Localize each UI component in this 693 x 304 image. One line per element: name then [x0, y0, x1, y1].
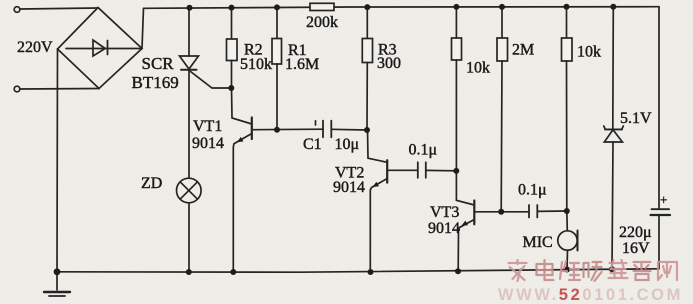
MIC flat electrode	[577, 231, 579, 251]
lamp ZD cross	[180, 182, 197, 199]
transistor VT2 emitter wire	[370, 179, 387, 273]
watermark chinese characters	[509, 260, 678, 281]
bridge diode cathode bar	[107, 41, 109, 55]
node dot MIC cap	[564, 208, 570, 214]
capacitor C1 left plate	[322, 121, 324, 138]
transistor VT3 base wire	[474, 211, 528, 213]
node dot top rail R3	[364, 4, 370, 10]
resistor 10k no1 top wire	[455, 7, 457, 38]
wire VT2 collector	[368, 130, 388, 162]
transistor VT2 base bar	[386, 160, 388, 182]
svg-text:5.1V: 5.1V	[620, 110, 652, 127]
transistor VT2 emitter arrow	[373, 182, 380, 187]
watermark char zi	[609, 260, 628, 278]
bridge diode bar line	[66, 48, 142, 50]
SCR gate wire	[191, 72, 232, 89]
wire cap2 to MIC node	[537, 210, 567, 212]
svg-text:+: +	[660, 192, 667, 207]
zener VD bar	[605, 128, 622, 130]
node dot top rail SCR	[187, 5, 193, 11]
resistor 10k no2 bottom wire	[566, 61, 568, 211]
transistor VT3 emitter arrow	[461, 221, 468, 226]
transistor VT1 base wire to C1	[252, 128, 323, 131]
svg-text:VT3: VT3	[430, 204, 459, 221]
node dot top rail 2M	[499, 4, 505, 10]
capacitor 0.1u no1 left plate	[417, 162, 419, 178]
svg-text:BT169: BT169	[132, 73, 179, 92]
MIC circle	[558, 231, 577, 250]
wire DC- drop from bridge left vertex	[56, 49, 59, 272]
svg-text:2M: 2M	[512, 42, 534, 59]
transistor VT1 emitter wire	[233, 134, 252, 273]
node dot top rail 10k1	[453, 4, 459, 10]
svg-text:10μ: 10μ	[335, 136, 360, 153]
svg-text:9014: 9014	[333, 179, 365, 196]
resistor 10k no2 top wire	[566, 7, 568, 38]
capacitor 0.1u no1 right plate	[425, 162, 427, 178]
resistor R1 bottom wire	[276, 64, 278, 130]
resistor 10k no1 box	[452, 38, 462, 60]
node dot bottom rail ground	[54, 268, 61, 275]
svg-text:510k: 510k	[240, 56, 272, 73]
capacitor 220u top plate	[652, 208, 670, 210]
node dot top rail R2	[229, 5, 235, 11]
node dot VT2 base cap	[453, 168, 459, 174]
resistor R2 bottom wire	[231, 61, 233, 89]
wire C1 to VT2 collector node	[331, 128, 367, 131]
svg-text:0.1μ: 0.1μ	[409, 142, 438, 159]
resistor R3 bottom wire	[366, 63, 368, 131]
resistor R1 top wire	[276, 7, 278, 38]
terminal bottom-left	[14, 86, 20, 92]
transistor VT2 base wire	[387, 169, 417, 171]
svg-text:1.6M: 1.6M	[285, 56, 319, 73]
svg-text:C1: C1	[303, 136, 322, 153]
resistor R3 box	[362, 39, 372, 63]
node dot bottom rail VT3e	[455, 268, 461, 274]
bridge rectifier diamond	[58, 8, 143, 89]
svg-text:WWW.520101.COM: WWW.520101.COM	[498, 286, 683, 304]
capacitor 220u bottom plate	[651, 214, 671, 216]
node dot bottom rail MIC	[564, 267, 570, 273]
ground	[56, 272, 58, 290]
resistor R2 box	[227, 39, 238, 61]
wire R2-gate node to VT1 collector	[232, 88, 252, 124]
wire top rail	[144, 7, 660, 9]
svg-text:16V: 16V	[622, 240, 650, 257]
transistor VT3 emitter wire	[458, 220, 474, 272]
MIC bottom wire	[566, 250, 569, 269]
watermark char xiu	[584, 262, 602, 281]
resistor R2 top wire	[231, 8, 233, 39]
svg-text:MIC: MIC	[523, 234, 553, 251]
resistor 2M top wire	[501, 7, 503, 38]
svg-text:10k: 10k	[577, 44, 601, 61]
node dot top rail 10k2	[564, 4, 570, 10]
SCR U1 BT169 anode wire	[188, 8, 190, 56]
SCR cathode wire to lamp	[188, 70, 190, 178]
transistor VT1 emitter arrow	[237, 137, 244, 142]
node dot top rail zener	[610, 4, 616, 10]
lamp ZD circle	[177, 178, 202, 203]
SCR U1 BT169 triangle	[180, 56, 199, 69]
node dot VT2 collector C1 R3	[364, 127, 370, 133]
zener VD 5.1V top wire	[612, 7, 615, 130]
zener bottom wire	[612, 142, 613, 269]
watermark char jia	[509, 260, 527, 281]
node dot bottom rail lamp	[186, 269, 192, 275]
svg-text:300: 300	[377, 55, 401, 72]
node dot VT3 base 2M	[498, 209, 504, 215]
watermark char wei	[560, 261, 580, 280]
transistor VT3 base bar	[473, 201, 475, 225]
resistor R1 box	[272, 39, 282, 65]
svg-text:ZD: ZD	[141, 175, 162, 192]
SCR U1 BT169 cathode bar	[181, 69, 197, 71]
wire VT3 collector	[456, 171, 474, 205]
svg-text:220μ: 220μ	[619, 224, 652, 241]
resistor 10k no1 bottom wire	[455, 60, 457, 171]
resistor 2M box	[497, 38, 508, 61]
terminal top-left	[14, 7, 20, 13]
wire bottom rail	[57, 269, 659, 272]
wire cap1 to 10k node	[426, 169, 457, 171]
resistor 10k no2 box	[562, 38, 573, 61]
watermark url	[498, 286, 683, 304]
capacitor 0.1u no2 right plate	[536, 205, 538, 218]
wire DC+ riser	[142, 8, 144, 48]
watermark char liao	[634, 262, 651, 280]
watermark char wang	[658, 262, 677, 280]
svg-text:SCR: SCR	[142, 54, 175, 73]
resistor 2M bottom wire	[500, 61, 503, 212]
capacitor 0.1u no2 left plate	[528, 205, 530, 218]
wire AC bottom	[20, 88, 99, 91]
svg-text:200k: 200k	[306, 14, 338, 31]
node dot R2 gate	[228, 85, 234, 91]
wire AC top	[20, 8, 98, 9]
resistor R3 top wire	[366, 7, 368, 39]
bridge diode triangle	[93, 40, 105, 56]
svg-text:220V: 220V	[17, 39, 53, 56]
node dot bottom rail zener	[609, 266, 615, 272]
capacitor 220u wire top	[658, 7, 660, 209]
node dot bottom rail VT1e	[230, 269, 236, 275]
capacitor 220u wire bottom	[658, 215, 660, 269]
transistor VT1 base bar	[251, 118, 253, 140]
svg-text:0.1μ: 0.1μ	[518, 182, 547, 199]
resistor 200k box	[310, 3, 334, 10]
svg-text:10k: 10k	[466, 60, 490, 77]
svg-text:9014: 9014	[192, 135, 224, 152]
capacitor C1 right plate	[330, 121, 332, 138]
svg-text:VT1: VT1	[193, 118, 222, 135]
watermark char dian	[537, 260, 554, 280]
node dot top rail R1	[274, 4, 280, 10]
zener VD triangle	[604, 130, 622, 142]
svg-text:9014: 9014	[428, 220, 460, 237]
node dot VT1 base R1	[274, 127, 280, 133]
wire MIC node down	[566, 211, 569, 231]
lamp bottom wire	[188, 203, 190, 272]
node dot bottom rail VT2e	[368, 269, 374, 275]
